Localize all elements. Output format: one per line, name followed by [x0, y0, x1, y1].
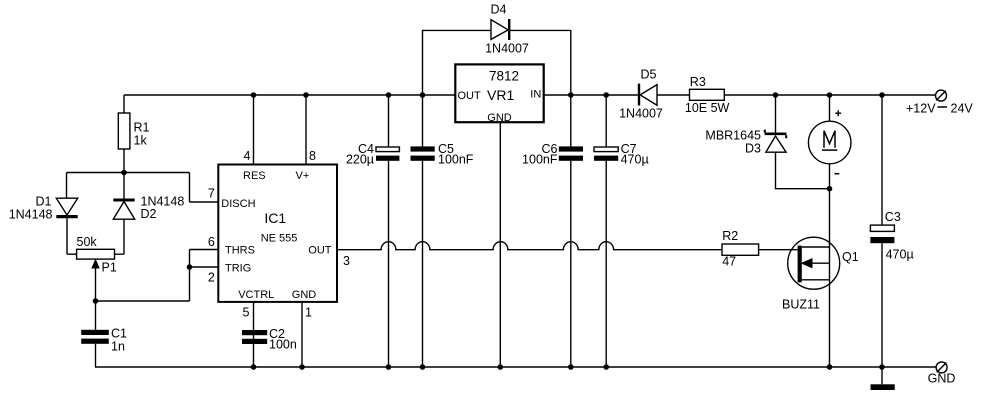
node C7 ground junction dot — [603, 364, 609, 370]
label C2 value — [269, 327, 297, 352]
node pin5 ground junction dot — [251, 364, 257, 370]
capacitor C2 — [242, 330, 267, 344]
svg-text:DISCH: DISCH — [221, 198, 255, 210]
label C6 value — [522, 142, 558, 167]
node Q1 source ground junction dot — [827, 364, 833, 370]
svg-text:BUZ11: BUZ11 — [782, 297, 820, 311]
label D3 value — [705, 129, 761, 156]
svg-text:470µ: 470µ — [886, 247, 914, 261]
svg-text:1N4007: 1N4007 — [485, 41, 529, 55]
pin 1 GND — [301, 302, 303, 367]
svg-text:D4: D4 — [491, 3, 507, 17]
svg-text:P1: P1 — [102, 260, 117, 274]
svg-text:47: 47 — [722, 254, 736, 268]
label D4 value — [485, 3, 529, 56]
label +12V-24V — [906, 101, 973, 115]
node C5 rail junction dot — [420, 92, 426, 98]
svg-text:C3: C3 — [885, 210, 901, 224]
label R1 value — [134, 121, 150, 148]
svg-text:100nF: 100nF — [438, 153, 474, 167]
svg-text:8: 8 — [309, 149, 316, 163]
node wiper/C1 junction dot — [93, 298, 99, 304]
diode D3 MBR1645 schottky — [765, 95, 830, 189]
svg-text:VR1: VR1 — [487, 87, 514, 103]
label Q1 designator — [782, 250, 859, 311]
svg-text:D3: D3 — [745, 142, 761, 156]
svg-text:7812: 7812 — [489, 68, 519, 83]
label D5 value — [619, 68, 663, 121]
label P1 value — [77, 235, 117, 274]
node TRIG junction dot — [187, 264, 193, 270]
svg-text:1N4007: 1N4007 — [619, 107, 663, 121]
pin 8 V+ — [305, 95, 307, 165]
capacitor C5 — [411, 95, 435, 367]
svg-text:IC1: IC1 — [264, 210, 286, 226]
wire OUT pin3 line with hops — [337, 242, 722, 250]
wire dash in supply label — [938, 106, 948, 108]
label C5 value — [438, 142, 474, 167]
svg-text:GND: GND — [292, 289, 317, 301]
svg-text:MBR1645: MBR1645 — [705, 129, 761, 143]
node C4 rail junction dot — [386, 92, 392, 98]
svg-text:4: 4 — [244, 149, 251, 163]
pin 5 VCTRL — [253, 302, 255, 367]
diode D5 — [639, 84, 657, 106]
pin 4 RES — [253, 95, 255, 165]
svg-text:D5: D5 — [641, 68, 657, 82]
svg-text:100n: 100n — [269, 337, 297, 351]
node C3 rail junction dot — [879, 92, 885, 98]
svg-text:1N4148: 1N4148 — [9, 208, 53, 222]
svg-text:GND: GND — [487, 112, 512, 124]
pin 7 DISCH stub — [190, 201, 219, 203]
capacitor C3 electrolytic — [870, 95, 894, 367]
wire top supply rail — [124, 94, 936, 96]
svg-text:7: 7 — [208, 187, 215, 201]
label R2 value — [722, 229, 738, 268]
node motor/D3/drain junction dot — [827, 186, 833, 192]
node C6 ground junction dot — [568, 364, 574, 370]
svg-text:R2: R2 — [722, 229, 738, 243]
svg-text:GND: GND — [928, 372, 956, 386]
svg-text:D1: D1 — [36, 195, 52, 209]
svg-text:THRS: THRS — [225, 245, 255, 257]
svg-text:24V: 24V — [951, 101, 974, 115]
svg-text:C1: C1 — [111, 326, 127, 340]
node C4 ground junction dot — [386, 364, 392, 370]
node A junction dot R1/D2 — [121, 170, 127, 176]
capacitor C6 — [559, 95, 583, 367]
label pin numbers IC1 — [208, 149, 350, 319]
diode D1 — [56, 198, 77, 254]
node pin8 rail junction dot — [303, 92, 309, 98]
label VR1 internals — [458, 68, 542, 124]
resistor R1 — [118, 95, 130, 173]
svg-text:1k: 1k — [134, 133, 148, 147]
node C3 ground junction dot — [879, 364, 885, 370]
node VR1 GND ground junction dot — [498, 364, 504, 370]
node pin1 ground junction dot — [299, 364, 305, 370]
svg-text:D2: D2 — [141, 207, 157, 221]
svg-text:+12V: +12V — [906, 101, 936, 115]
capacitor C1 — [81, 301, 109, 367]
capacitor C4 electrolytic — [376, 95, 399, 367]
svg-text:470µ: 470µ — [621, 153, 649, 167]
svg-text:10E 5W: 10E 5W — [685, 101, 730, 115]
label C4 value — [346, 142, 374, 167]
svg-text:TRIG: TRIG — [225, 263, 251, 275]
potentiometer P1 — [67, 249, 124, 301]
svg-text:RES: RES — [243, 170, 266, 182]
pin 2 TRIG stub — [190, 266, 219, 268]
label D2 value — [141, 195, 185, 222]
resistor R2 — [722, 244, 798, 255]
node pin4 rail junction dot — [251, 92, 257, 98]
terminal +12V-24V — [936, 90, 947, 101]
svg-text:V+: V+ — [296, 170, 310, 182]
node C5 ground junction dot — [420, 364, 426, 370]
label C1 value — [111, 326, 127, 353]
svg-text:6: 6 — [208, 235, 215, 249]
node D3 rail junction dot — [773, 92, 779, 98]
terminal GND — [936, 362, 947, 373]
ground symbol — [871, 367, 895, 390]
svg-text:220µ: 220µ — [346, 153, 374, 167]
wire bottom ground rail — [95, 366, 936, 368]
resistor R3 — [690, 89, 725, 100]
svg-text:2: 2 — [208, 270, 215, 284]
op IC1 NE555 box — [218, 165, 337, 302]
capacitor C7 electrolytic — [594, 95, 618, 367]
wire THRS/TRIG vertical — [189, 250, 191, 302]
svg-text:5: 5 — [243, 305, 250, 319]
svg-text:VCTRL: VCTRL — [238, 289, 274, 301]
label IC1 designator — [261, 210, 298, 245]
svg-text:1n: 1n — [111, 339, 125, 353]
node C7 rail junction dot — [603, 92, 609, 98]
diode D4 bypass loop — [423, 19, 571, 95]
node motor rail junction dot — [827, 92, 833, 98]
label C7 value — [621, 142, 649, 167]
svg-text:OUT: OUT — [458, 90, 482, 102]
svg-text:100nF: 100nF — [522, 153, 558, 167]
svg-text:3: 3 — [343, 254, 350, 268]
pin 6 THRS stub — [190, 249, 219, 251]
svg-text:1: 1 — [305, 305, 312, 319]
svg-text:OUT: OUT — [308, 245, 332, 257]
regulator VR1 7812 box — [455, 64, 543, 122]
node C6 rail junction dot — [568, 92, 574, 98]
wire VR1 GND pin — [499, 122, 501, 367]
motor M1 — [808, 95, 851, 189]
svg-text:R3: R3 — [690, 75, 706, 89]
label D1 value — [9, 195, 53, 222]
label C3 value — [885, 210, 914, 261]
transistor Q1 BUZ11 mosfet — [788, 189, 840, 367]
label R3 value — [685, 75, 730, 115]
svg-text:50k: 50k — [77, 235, 98, 249]
label IC1 internals — [221, 170, 331, 301]
svg-text:NE 555: NE 555 — [261, 233, 298, 245]
svg-text:IN: IN — [530, 89, 541, 101]
diode D2 — [113, 173, 134, 255]
label GND terminal — [928, 372, 956, 386]
wire wiper to THRS/TRIG — [96, 300, 190, 302]
svg-text:Q1: Q1 — [842, 250, 859, 264]
wire node below R1 to D1/D2/DISCH — [67, 173, 190, 203]
